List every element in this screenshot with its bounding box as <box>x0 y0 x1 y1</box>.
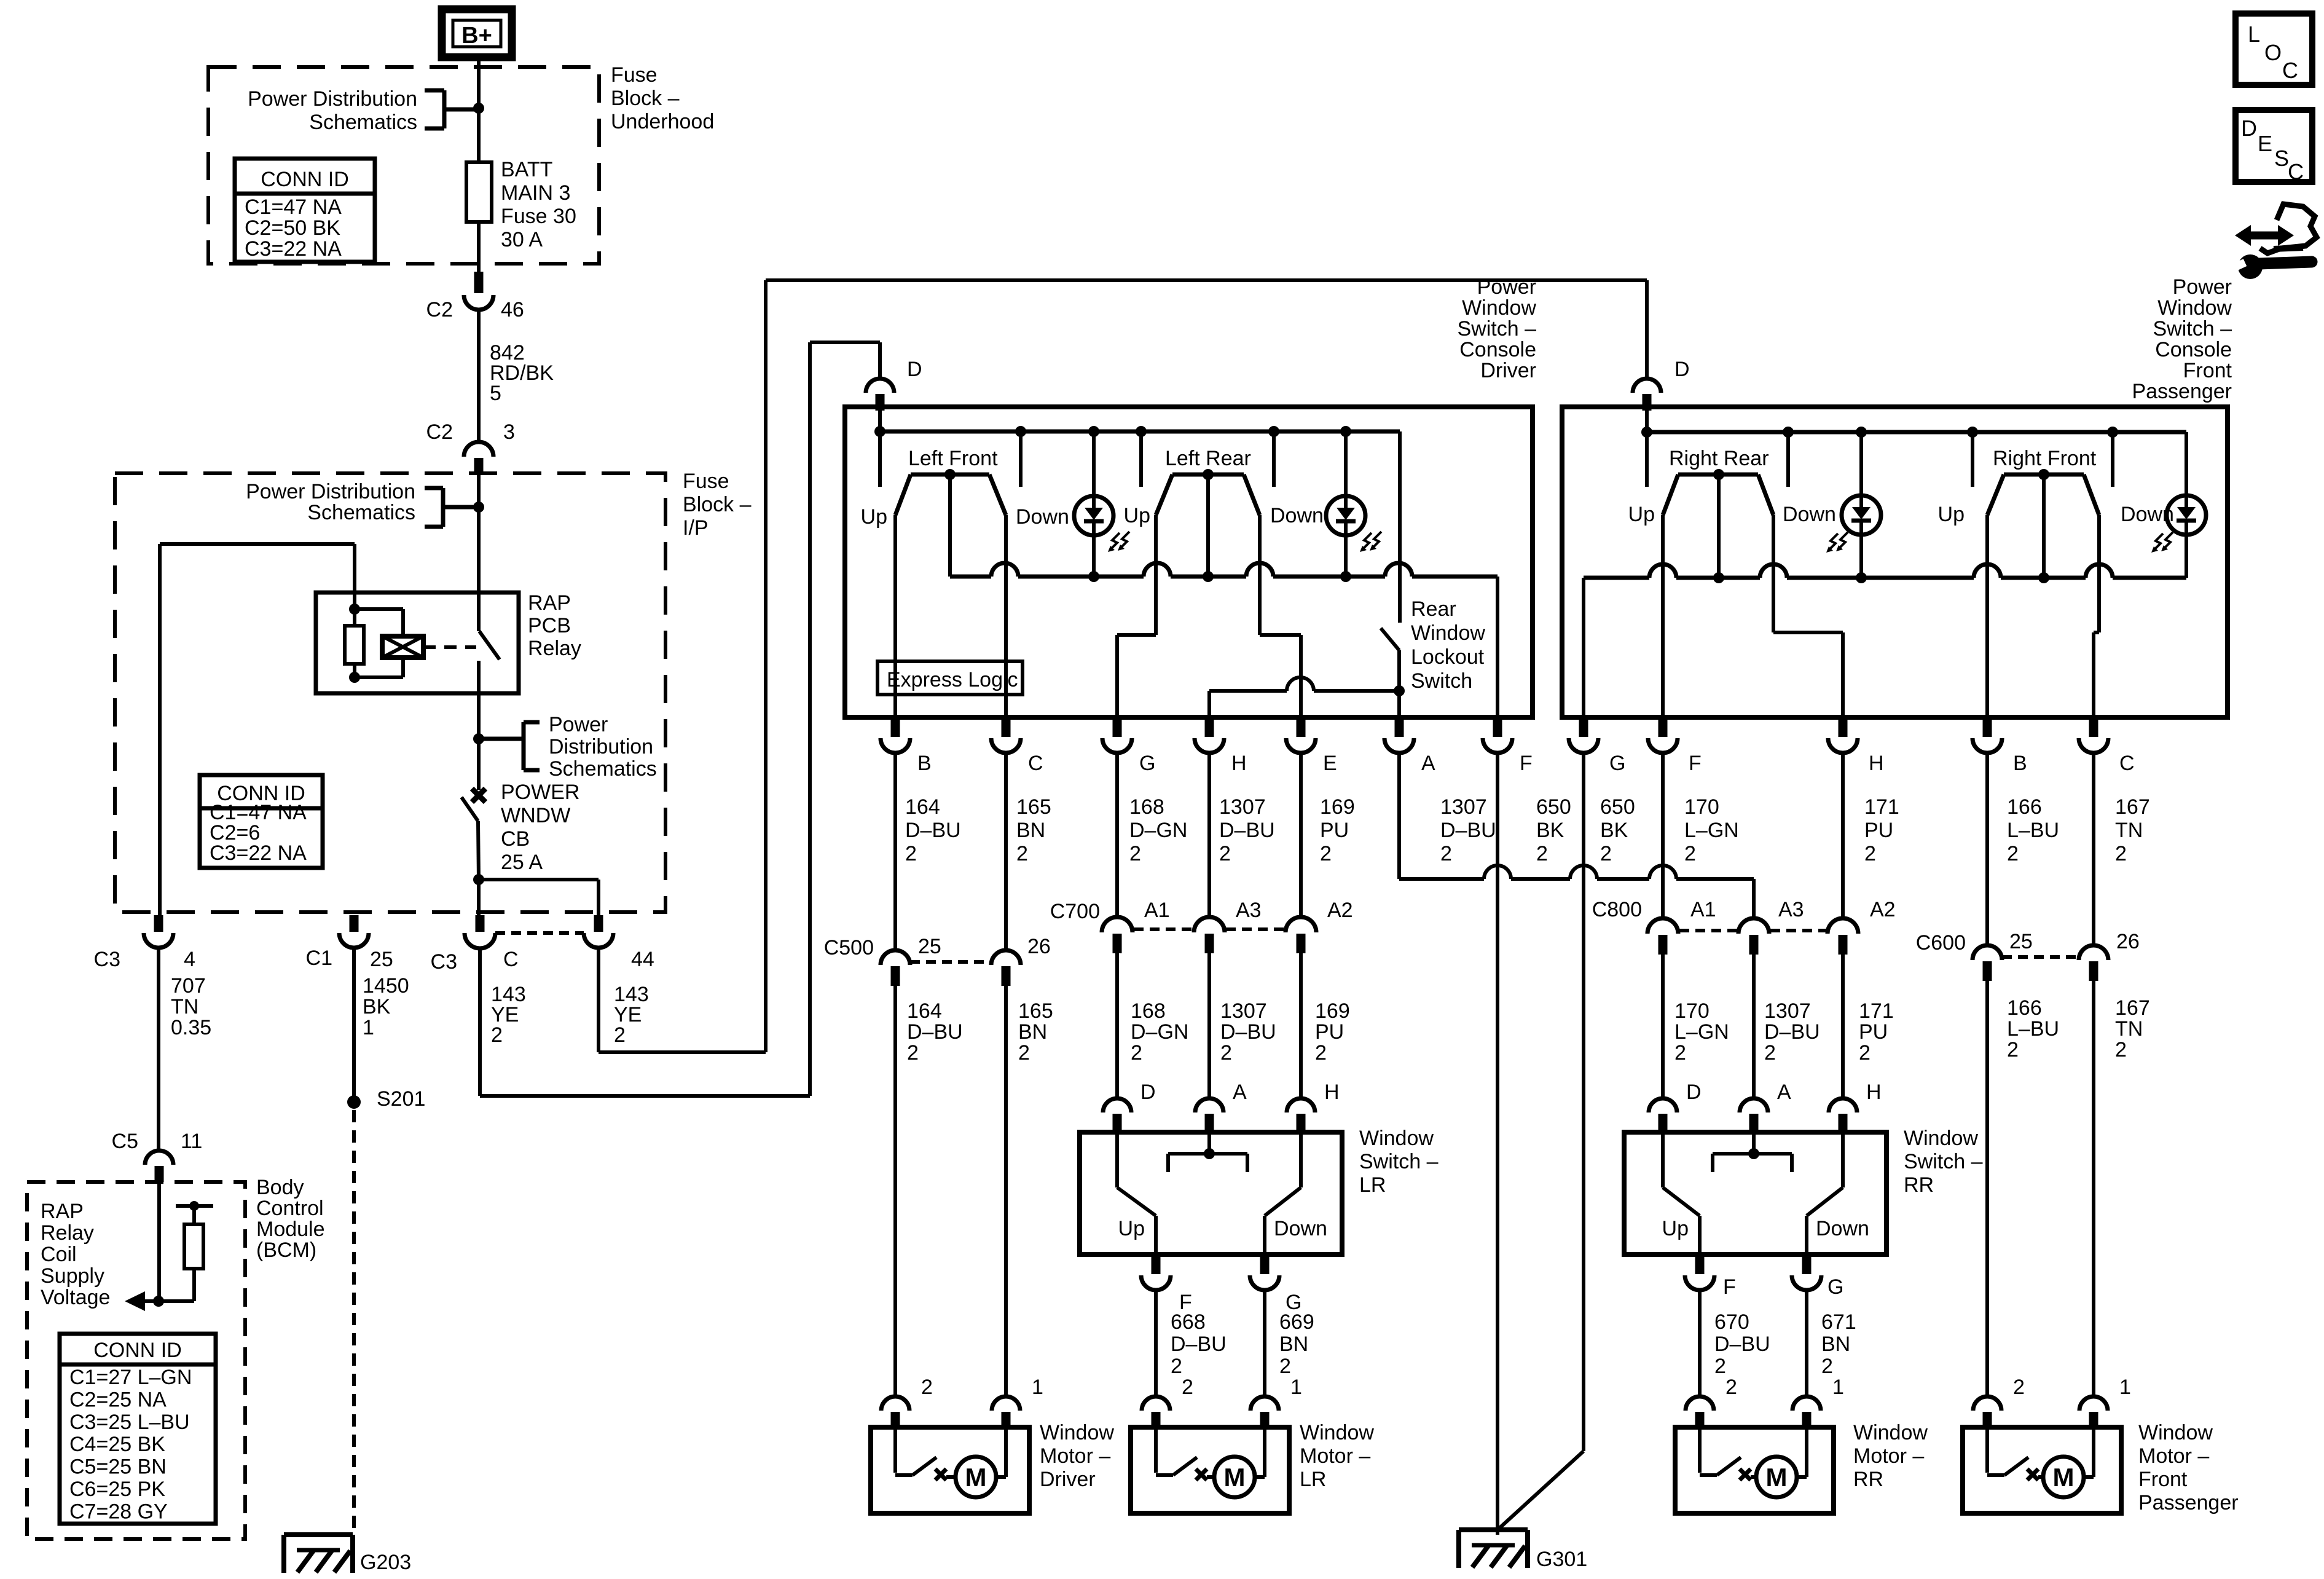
relay actuation dashed link <box>423 645 476 649</box>
wire BCM input <box>157 1182 161 1301</box>
svg-text:1307: 1307 <box>1440 795 1487 819</box>
svg-text:C2: C2 <box>426 298 453 321</box>
svg-text:MAIN 3: MAIN 3 <box>501 181 570 205</box>
wire LED2 top <box>1344 431 1348 496</box>
svg-text:C2: C2 <box>426 420 453 444</box>
wire C800-A2 to RR switch H <box>1841 955 1845 1098</box>
wire B+ to fuse <box>477 57 481 162</box>
wire 707 TN <box>157 948 160 1151</box>
svg-text:2: 2 <box>905 842 917 865</box>
connector FP motor pin 1 <box>2079 1396 2108 1428</box>
power distribution bracket 3 <box>479 722 540 770</box>
wire LR down to motor <box>1263 1290 1266 1397</box>
svg-text:TN: TN <box>2115 1017 2143 1041</box>
label 165 BN 2 lower <box>1018 999 1053 1065</box>
svg-text:2: 2 <box>1315 1041 1327 1065</box>
wire RR up to pin F <box>1661 515 1665 717</box>
svg-text:164: 164 <box>905 795 940 819</box>
svg-text:Front: Front <box>2138 1468 2188 1491</box>
resistor BCM pullup <box>176 1201 213 1301</box>
svg-text:1307: 1307 <box>1219 795 1266 819</box>
label 171 PU 2 lower <box>1859 999 1894 1065</box>
svg-text:RAP: RAP <box>41 1200 84 1223</box>
svg-text:30 A: 30 A <box>501 228 543 251</box>
svg-text:C3=25 L–BU: C3=25 L–BU <box>69 1411 190 1434</box>
RR switch down blade <box>1807 1133 1843 1254</box>
node relay coil top <box>349 604 360 615</box>
LED left rear down indicator <box>1326 496 1381 552</box>
svg-text:A2: A2 <box>1327 899 1353 922</box>
label Fuse Block Underhood <box>611 63 714 133</box>
svg-text:Block –: Block – <box>611 87 680 110</box>
svg-text:Schematics: Schematics <box>307 501 415 524</box>
svg-text:Power: Power <box>2173 275 2232 299</box>
label pin F driver <box>1520 752 1533 775</box>
svg-text:Control: Control <box>256 1197 324 1220</box>
svg-text:C: C <box>2288 159 2304 184</box>
svg-text:Up: Up <box>1118 1217 1145 1240</box>
svg-text:5: 5 <box>490 382 501 405</box>
wire C600-25 to motor <box>1985 981 1989 1397</box>
label G LR <box>1286 1291 1301 1314</box>
connector RR switch pin H <box>1829 1098 1857 1133</box>
svg-text:164: 164 <box>907 999 942 1023</box>
svg-text:Switch –: Switch – <box>1904 1150 1983 1173</box>
label 143 YE 2 left <box>491 983 526 1047</box>
svg-text:D–BU: D–BU <box>1220 1020 1276 1044</box>
wire lockout to pin H <box>1209 677 1399 717</box>
connector driver switch pin F <box>1483 717 1512 753</box>
label Up RR <box>1628 503 1655 526</box>
conn id table I/P <box>200 775 323 868</box>
svg-text:D–BU: D–BU <box>907 1020 963 1044</box>
RR switch up blade <box>1663 1133 1700 1254</box>
svg-text:C1=47 NA: C1=47 NA <box>245 195 342 219</box>
label 11 <box>181 1130 202 1153</box>
node bus D passenger <box>1641 427 1652 438</box>
svg-text:PU: PU <box>1315 1020 1344 1044</box>
label Power Distribution Schematics 3 <box>549 713 657 781</box>
label pin H passenger <box>1869 752 1884 775</box>
svg-text:Up: Up <box>1628 503 1655 526</box>
svg-text:Schematics: Schematics <box>309 111 417 134</box>
label A1 C700 <box>1144 899 1170 922</box>
label 668 D-BU 2 <box>1171 1310 1227 1378</box>
window motor front passenger <box>1963 1427 2121 1513</box>
wire pin H to C700 <box>1207 753 1211 918</box>
svg-text:BN: BN <box>1018 1020 1047 1044</box>
svg-text:25: 25 <box>2009 930 2033 953</box>
svg-text:A1: A1 <box>1144 899 1170 922</box>
label 1307 D-BU 2 lower right <box>1764 999 1820 1065</box>
label 1 FP motor <box>2119 1376 2131 1399</box>
connector driver switch pin A <box>1384 717 1414 753</box>
svg-text:Power: Power <box>1477 275 1536 299</box>
svg-text:Up: Up <box>1662 1217 1689 1240</box>
svg-text:Power Distribution: Power Distribution <box>248 87 417 111</box>
label pin B passenger <box>2013 752 2027 775</box>
svg-text:A3: A3 <box>1236 899 1262 922</box>
connector RR switch pin D <box>1649 1098 1677 1133</box>
wire pin B to C500 <box>893 753 897 951</box>
svg-text:4: 4 <box>184 948 195 971</box>
wire RF up to pin B <box>1985 515 1989 717</box>
label pin G passenger <box>1609 752 1625 775</box>
label Up LF <box>861 505 887 529</box>
wire pin H to C800 <box>1841 753 1845 919</box>
connector passenger switch pin G <box>1569 717 1598 753</box>
svg-text:Down: Down <box>1783 503 1836 526</box>
svg-text:Power Distribution: Power Distribution <box>246 480 415 503</box>
svg-text:165: 165 <box>1018 999 1053 1023</box>
svg-text:Console: Console <box>2155 338 2232 361</box>
label 2 LR motor <box>1182 1376 1193 1399</box>
svg-text:2: 2 <box>1600 842 1612 865</box>
svg-text:G: G <box>1827 1275 1843 1299</box>
svg-text:Block –: Block – <box>683 493 752 516</box>
svg-text:2: 2 <box>2013 1376 2025 1399</box>
label 670 D-BU 2 <box>1714 1310 1770 1378</box>
svg-text:2: 2 <box>1674 1041 1686 1065</box>
label 169 PU 2 <box>1320 795 1355 865</box>
svg-text:Window: Window <box>2157 296 2232 320</box>
svg-text:167: 167 <box>2115 996 2150 1020</box>
svg-text:2: 2 <box>1182 1376 1193 1399</box>
node bus D <box>874 426 885 437</box>
window motor RR <box>1675 1427 1834 1513</box>
connector LR switch pin A <box>1195 1098 1223 1133</box>
label Rear Window Lockout Switch <box>1411 597 1485 693</box>
contact LR down <box>1272 431 1276 487</box>
contact RR down <box>1786 432 1790 487</box>
label 25 C600 <box>2009 930 2033 953</box>
wire LF up to pin B <box>893 515 897 717</box>
label D RR <box>1686 1081 1702 1104</box>
connector LR motor pin 2 <box>1142 1396 1170 1428</box>
label pin F passenger <box>1689 752 1702 775</box>
svg-text:M: M <box>2053 1463 2075 1492</box>
rear window lockout switch <box>1381 628 1399 717</box>
svg-text:C3=22 NA: C3=22 NA <box>245 237 342 261</box>
label H RR <box>1866 1081 1882 1104</box>
label pin G driver <box>1139 752 1155 775</box>
power window switch console front passenger box <box>1562 407 2228 717</box>
svg-text:2: 2 <box>2115 1038 2127 1061</box>
connector passenger switch pin H <box>1828 717 1858 753</box>
svg-text:669: 669 <box>1279 1310 1314 1334</box>
label 26 C600 <box>2116 930 2140 953</box>
wire LED3 bottom <box>1859 535 1863 578</box>
svg-text:LR: LR <box>1300 1468 1326 1491</box>
RR switch common bracket <box>1713 1133 1792 1172</box>
svg-text:C6=25 PK: C6=25 PK <box>69 1478 165 1501</box>
node lockout output <box>1394 685 1405 696</box>
wire LED4 bottom <box>2185 535 2188 578</box>
node junction IP feed <box>473 502 484 513</box>
svg-text:CONN ID: CONN ID <box>93 1339 182 1362</box>
svg-text:170: 170 <box>1674 999 1710 1023</box>
svg-text:B: B <box>2013 752 2027 775</box>
label 168 D-GN 2 lower <box>1131 999 1188 1065</box>
svg-text:11: 11 <box>181 1130 202 1153</box>
svg-text:2: 2 <box>907 1041 919 1065</box>
relay coil K1 <box>382 636 423 658</box>
svg-text:D: D <box>1686 1081 1702 1104</box>
label Power Window Switch Console Driver <box>1458 275 1537 382</box>
svg-text:H: H <box>1869 752 1884 775</box>
connector C2 pin 46 <box>464 272 493 310</box>
connector driver motor pin 1 <box>992 1396 1020 1428</box>
svg-text:Window: Window <box>1359 1127 1434 1150</box>
svg-text:650: 650 <box>1536 795 1571 819</box>
svg-text:G: G <box>1139 752 1155 775</box>
svg-text:G301: G301 <box>1536 1548 1587 1571</box>
wire RR down to motor <box>1805 1290 1808 1397</box>
svg-text:A3: A3 <box>1778 898 1804 921</box>
svg-text:Window: Window <box>1853 1421 1928 1444</box>
svg-text:Voltage: Voltage <box>41 1286 110 1309</box>
svg-text:BN: BN <box>1279 1333 1308 1356</box>
wire pin A to C800 <box>1399 753 1754 919</box>
wire RR down to pin H <box>1773 515 1843 717</box>
label Window Motor RR <box>1853 1421 1928 1491</box>
svg-text:F: F <box>1520 752 1533 775</box>
svg-text:707: 707 <box>171 974 206 998</box>
svg-text:L–BU: L–BU <box>2007 819 2059 842</box>
wire RR up to motor <box>1698 1290 1702 1397</box>
circuit breaker POWER WNDW CB <box>461 789 485 880</box>
label Window Switch RR <box>1904 1127 1983 1197</box>
svg-text:RAP: RAP <box>528 591 571 615</box>
wire LR down to pin E <box>1260 515 1301 717</box>
label Window Switch LR <box>1359 1127 1439 1197</box>
passenger internal bus <box>1647 430 2186 435</box>
wire bus corner to LED4 <box>2185 432 2188 495</box>
label 1307 D-BU 2 lower <box>1220 999 1276 1065</box>
label 164 D-BU 2 lower <box>907 999 963 1065</box>
label A2 C800 <box>1870 898 1896 921</box>
svg-text:C700: C700 <box>1050 900 1100 923</box>
label C <box>503 948 519 971</box>
svg-text:Relay: Relay <box>41 1221 94 1245</box>
svg-text:Power: Power <box>549 713 608 736</box>
svg-text:Window: Window <box>1411 621 1485 645</box>
label Window Motor Front Passenger <box>2138 1421 2239 1514</box>
label 650 BK 2 driver <box>1536 795 1571 865</box>
wire pin F to C800 <box>1661 753 1665 919</box>
svg-text:Window: Window <box>1462 296 1536 320</box>
label 143 YE 2 right <box>614 983 649 1047</box>
svg-text:C3: C3 <box>94 948 120 971</box>
ground G203 <box>284 1535 353 1573</box>
node bus LR down <box>1268 426 1279 437</box>
label A LR <box>1233 1081 1247 1104</box>
connector C500 pin 25 <box>881 950 910 986</box>
label Window Motor Driver <box>1040 1421 1114 1491</box>
svg-text:Motor –: Motor – <box>1300 1444 1370 1468</box>
svg-text:Underhood: Underhood <box>611 110 714 133</box>
label 1 LR motor <box>1290 1376 1302 1399</box>
svg-text:Right Front: Right Front <box>1993 447 2097 470</box>
wire C500-25 to motor <box>893 986 897 1397</box>
svg-text:46: 46 <box>501 298 524 321</box>
svg-text:C5=25 BN: C5=25 BN <box>69 1455 167 1479</box>
label G301 <box>1536 1548 1587 1571</box>
label 26 C500 <box>1027 935 1051 958</box>
svg-text:0.35: 0.35 <box>171 1016 211 1039</box>
svg-text:RR: RR <box>1853 1468 1883 1491</box>
svg-text:1307: 1307 <box>1764 999 1811 1023</box>
svg-text:TN: TN <box>2115 819 2143 842</box>
node bus LF down <box>1015 426 1026 437</box>
fuse block underhood dashed box <box>208 67 599 264</box>
label 1 RR motor <box>1832 1376 1844 1399</box>
connector passenger switch pin D <box>1633 379 1661 411</box>
label Down RR <box>1783 503 1836 526</box>
svg-text:168: 168 <box>1129 795 1164 819</box>
svg-text:S: S <box>2274 146 2289 171</box>
svg-text:A1: A1 <box>1690 898 1716 921</box>
svg-text:D–BU: D–BU <box>1219 819 1275 842</box>
label 25 <box>370 948 393 971</box>
wire pin C to C600 <box>2092 753 2095 946</box>
svg-text:C: C <box>503 948 519 971</box>
svg-text:D–BU: D–BU <box>1714 1333 1770 1356</box>
svg-text:2: 2 <box>1279 1355 1291 1378</box>
connector passenger switch pin F <box>1648 717 1678 753</box>
wire 1450 BK to S201 <box>352 948 356 1097</box>
wire relay branch <box>160 544 355 915</box>
wire pin B to C600 <box>1985 753 1989 946</box>
label pin B driver <box>917 752 932 775</box>
svg-text:650: 650 <box>1600 795 1635 819</box>
label 46 <box>501 298 524 321</box>
wire 842 RD/BK <box>477 310 481 441</box>
svg-text:F: F <box>1689 752 1702 775</box>
svg-text:C: C <box>2119 752 2135 775</box>
wire LR up to motor <box>1154 1290 1158 1397</box>
node rail LED1 <box>1088 571 1099 582</box>
contact LR up <box>1139 431 1143 487</box>
svg-text:2: 2 <box>1821 1355 1833 1378</box>
splice S201 <box>347 1095 361 1109</box>
wire LR up to pin G <box>1117 515 1156 717</box>
svg-text:2: 2 <box>491 1023 503 1047</box>
svg-text:671: 671 <box>1821 1310 1856 1334</box>
svg-text:G203: G203 <box>360 1551 411 1574</box>
connector C1 pin 25 <box>339 915 369 948</box>
wire pin F to ground G301 <box>1496 753 1499 1535</box>
svg-text:D: D <box>1674 358 1690 381</box>
label C1 <box>306 947 332 970</box>
label 168 D-GN 2 <box>1129 795 1187 865</box>
svg-text:A: A <box>1421 752 1435 775</box>
wire pin G to C700 <box>1115 753 1119 918</box>
connector LR switch pin F <box>1141 1254 1171 1290</box>
wire LF pole <box>948 474 952 577</box>
svg-text:B+: B+ <box>461 23 492 49</box>
label 671 BN 2 <box>1821 1310 1856 1378</box>
svg-text:O: O <box>2264 40 2282 65</box>
svg-text:Relay: Relay <box>528 637 581 660</box>
wire LED2 bottom <box>1344 535 1348 577</box>
svg-text:M: M <box>1766 1463 1788 1492</box>
connector LR switch pin D <box>1103 1098 1131 1133</box>
svg-text:H: H <box>1324 1081 1340 1104</box>
svg-text:L–GN: L–GN <box>1674 1020 1729 1044</box>
label C800 <box>1592 898 1642 921</box>
wire C700-A1 to LR switch D <box>1115 953 1119 1098</box>
svg-text:2: 2 <box>921 1376 933 1399</box>
svg-text:Coil: Coil <box>41 1243 77 1266</box>
node junction on B+ wire <box>473 103 484 114</box>
svg-text:2: 2 <box>1725 1376 1737 1399</box>
label 25 C500 <box>918 935 941 958</box>
svg-text:668: 668 <box>1171 1310 1206 1334</box>
svg-text:171: 171 <box>1859 999 1894 1023</box>
connector C800 pin A2 <box>1827 918 1858 955</box>
wire coil loop <box>355 609 403 677</box>
svg-text:F: F <box>1723 1275 1736 1299</box>
svg-text:171: 171 <box>1864 795 1899 819</box>
svg-text:2: 2 <box>1684 842 1696 865</box>
connector RR switch pin A <box>1740 1098 1768 1133</box>
window switch RR box <box>1624 1132 1886 1254</box>
svg-text:L–BU: L–BU <box>2007 1017 2059 1041</box>
svg-text:166: 166 <box>2007 996 2042 1020</box>
connector C600 pin 26 <box>2079 945 2108 981</box>
svg-text:Distribution: Distribution <box>549 735 653 758</box>
label C3 <box>94 948 120 971</box>
wire LED1 top <box>1092 431 1096 496</box>
label pin E driver <box>1323 752 1337 775</box>
wire bus to lockout <box>1398 431 1402 623</box>
svg-text:PU: PU <box>1320 819 1349 842</box>
connector C800 pin A1 <box>1647 918 1678 955</box>
svg-text:25: 25 <box>918 935 941 958</box>
label pin A driver <box>1421 752 1435 775</box>
svg-text:26: 26 <box>2116 930 2140 953</box>
label Power Distribution Schematics <box>248 87 417 134</box>
node rail LR pole <box>1203 571 1214 582</box>
label 169 PU 2 lower <box>1315 999 1350 1065</box>
svg-text:2: 2 <box>1320 842 1332 865</box>
wire 44 output to passenger switch D <box>599 280 1647 1052</box>
svg-text:Right Rear: Right Rear <box>1669 447 1769 470</box>
connector RR motor pin 2 <box>1686 1396 1714 1428</box>
label 3 <box>503 420 515 444</box>
connector RR motor pin 1 <box>1792 1396 1821 1428</box>
connector C600 dashed link <box>2002 955 2079 959</box>
svg-text:PU: PU <box>1859 1020 1888 1044</box>
label A2 C700 <box>1327 899 1353 922</box>
wire C700-A3 to LR switch A <box>1207 953 1211 1098</box>
svg-text:H: H <box>1866 1081 1882 1104</box>
svg-text:170: 170 <box>1684 795 1719 819</box>
svg-text:D: D <box>2241 116 2257 141</box>
svg-text:Motor –: Motor – <box>2138 1444 2209 1468</box>
label 166 L-BU 2 lower <box>2007 996 2059 1061</box>
svg-text:D: D <box>1140 1081 1156 1104</box>
label G203 <box>360 1551 411 1574</box>
label 1 driver motor <box>1032 1376 1043 1399</box>
svg-text:167: 167 <box>2115 795 2150 819</box>
wire C700-A2 to LR switch H <box>1299 953 1303 1098</box>
label G RR <box>1827 1275 1843 1299</box>
label 165 BN 2 <box>1016 795 1051 865</box>
svg-text:I/P: I/P <box>683 516 709 540</box>
svg-text:2: 2 <box>1129 842 1141 865</box>
